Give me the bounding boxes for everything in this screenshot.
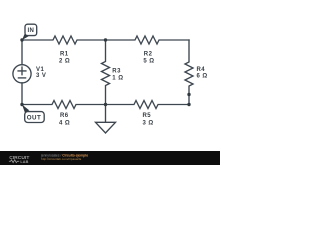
svg-text:2 Ω: 2 Ω — [59, 59, 70, 65]
svg-text:http://circuitlab.com/c/pasarf: http://circuitlab.com/c/pasarfa — [41, 157, 82, 161]
svg-text:R6: R6 — [60, 113, 69, 119]
svg-text:R4: R4 — [197, 67, 206, 73]
svg-text:1 Ω: 1 Ω — [112, 75, 123, 81]
svg-text:R5: R5 — [143, 113, 152, 119]
svg-text:R1: R1 — [60, 51, 69, 57]
svg-text:V1: V1 — [36, 67, 44, 73]
svg-text:IN: IN — [27, 28, 34, 34]
svg-text:OUT: OUT — [27, 114, 41, 121]
svg-text:R2: R2 — [144, 51, 153, 57]
svg-text:5 Ω: 5 Ω — [143, 59, 154, 65]
svg-text:R3: R3 — [112, 68, 121, 74]
svg-text:6 Ω: 6 Ω — [197, 74, 208, 80]
svg-text:LAB: LAB — [20, 160, 28, 164]
svg-text:3 V: 3 V — [36, 73, 46, 79]
svg-text:3 Ω: 3 Ω — [143, 121, 154, 127]
svg-text:4 Ω: 4 Ω — [59, 121, 70, 127]
